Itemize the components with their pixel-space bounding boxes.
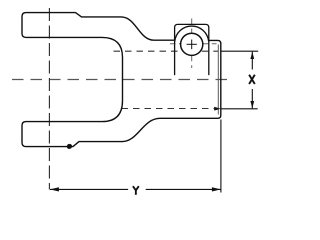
ear / bearing cap block: [175, 24, 209, 74]
Y dimension line: [50, 188, 128, 190]
label Y: [133, 186, 139, 195]
yoke body outline: [22, 13, 221, 147]
bearing cup dome arc: [175, 26, 209, 41]
X dim bottom extension line: [221, 108, 258, 110]
X dim top extension line: [221, 50, 258, 52]
weld dot: [66, 143, 73, 150]
label X: [249, 75, 255, 84]
bearing vertical centerline: [191, 19, 193, 34]
horizontal centerline: [12, 79, 230, 81]
hub end chamfer line: [217, 45, 219, 115]
bearing horizontal centerline: [170, 43, 181, 45]
hidden line tube seat bottom: [122, 108, 217, 110]
arrow on hidden line: [214, 107, 220, 111]
Y extension line: [220, 120, 222, 193]
vertical centerline (u-joint axis): [48, 8, 50, 189]
X dimension line with arrows: [251, 52, 253, 70]
center cross: [187, 43, 197, 45]
hidden line tube seat top: [114, 50, 182, 52]
bearing cup circle: [181, 33, 203, 55]
